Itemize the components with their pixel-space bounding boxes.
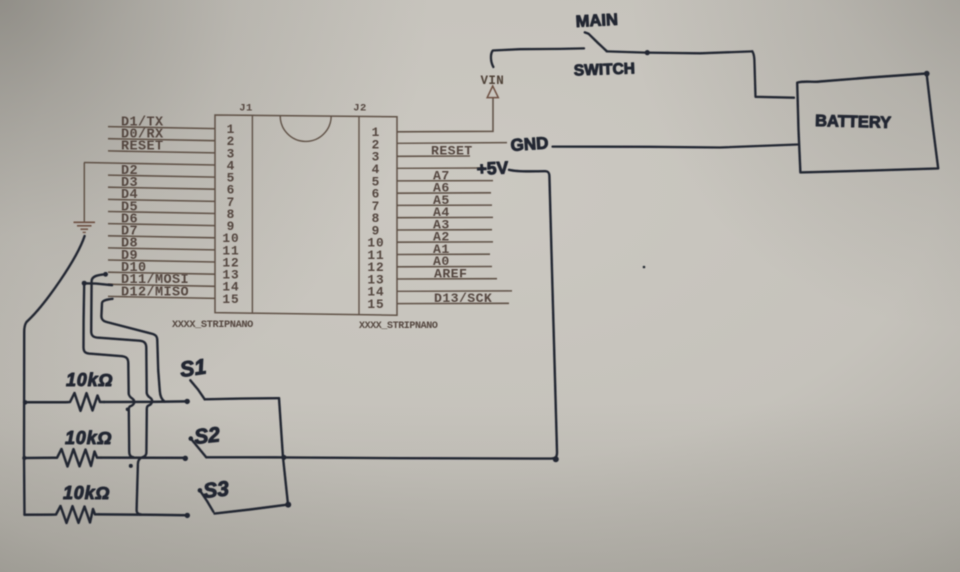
- svg-text:MAIN: MAIN: [575, 11, 618, 31]
- wire J2 pin 9 (A3): [397, 229, 492, 231]
- wire VIN to main switch: [491, 48, 584, 67]
- svg-text:RESET: RESET: [121, 140, 164, 155]
- wire J2 pin 6 (A6): [397, 192, 491, 194]
- tiny ink speck: [643, 266, 646, 269]
- wire J1 pin 3 (RESET): [108, 151, 215, 153]
- svg-text:10kΩ: 10kΩ: [63, 483, 110, 503]
- svg-text:XXXX_STRIPNANO: XXXX_STRIPNANO: [359, 321, 438, 332]
- S2 lever tip dot: [189, 436, 194, 441]
- junction dot at D10: [103, 272, 108, 277]
- +5V wire corner dot: [553, 456, 559, 462]
- wire J1 pin 8 (D5): [108, 212, 215, 214]
- svg-text:GND: GND: [510, 133, 549, 155]
- switch S3 lever: [200, 490, 214, 511]
- S3 lever tip dot: [198, 488, 203, 493]
- bus junction dot R2: [22, 456, 26, 460]
- wire GND drop from J1 pin 4: [83, 163, 85, 222]
- wire J1 pin 6 (D3): [108, 187, 215, 189]
- svg-text:J2: J2: [353, 103, 367, 115]
- svg-text:J1: J1: [239, 103, 253, 115]
- wire J2 pin 12 (A0): [397, 266, 492, 268]
- wire J1 pin 15 (D12/MISO): [108, 296, 215, 298]
- wire J1 pin 11 (D8): [108, 248, 215, 250]
- junction blob on switch wire: [645, 50, 650, 55]
- svg-text:15: 15: [367, 297, 384, 312]
- connector J1/J2 outline box: [215, 115, 397, 315]
- svg-text:SWITCH: SWITCH: [574, 60, 636, 79]
- main switch SW1 lever: [585, 32, 607, 51]
- right bus S1/S2/S3 vertical: [279, 398, 288, 504]
- wire J1 pin 12 (D9): [108, 260, 215, 262]
- wire J2 pin 4 (+5V): [397, 167, 484, 169]
- wire J2 pin 8 (A4): [397, 216, 493, 218]
- wire GND to battery: [553, 145, 798, 148]
- wire J1 pin 9 (D6): [108, 224, 215, 226]
- switch S2 lever: [191, 439, 206, 458]
- ground symbol: [74, 222, 96, 232]
- wire J1 pin 5 (D2): [108, 175, 215, 177]
- wire S3 to right bus bottom: [215, 505, 289, 514]
- wire R1 to S1: [104, 400, 187, 403]
- resistor R3 10k: [25, 506, 100, 523]
- wire J2 pin 10 (A2): [397, 241, 493, 243]
- svg-text:RESET: RESET: [431, 144, 473, 159]
- wire J1 pin 2 (D0/RX): [108, 139, 215, 141]
- bus junction dot R1: [23, 400, 28, 405]
- wire J2 pin 7 (A5): [397, 204, 492, 206]
- wire elbow down to battery: [752, 51, 794, 97]
- wire J1 pin 13 (D10): [108, 272, 215, 274]
- wire D11/MOSI to S2 column: [84, 283, 135, 457]
- wire J2 pin 2 (GND): [397, 142, 507, 145]
- battery box corner dot: [924, 71, 930, 77]
- svg-text:BATTERY: BATTERY: [815, 112, 892, 132]
- switch S1 lever: [190, 380, 204, 399]
- svg-text:+5V: +5V: [476, 157, 509, 179]
- svg-text:S2: S2: [193, 423, 221, 449]
- svg-text:VIN: VIN: [481, 74, 505, 88]
- wire R3 to S3: [99, 513, 187, 516]
- wire J1 pin 4 (GND): [84, 163, 215, 166]
- wire J2 pin 15 (D13/SCK): [397, 302, 509, 304]
- stray ink dot below R2 row: [129, 464, 133, 468]
- wire J2 pin 13 (AREF): [397, 278, 497, 280]
- wire J2 pin 1 to VIN: [397, 98, 493, 132]
- power symbol VIN triangle: [487, 86, 498, 98]
- IC notch semicircle: [280, 116, 331, 142]
- svg-text:15: 15: [222, 292, 239, 307]
- svg-text:10kΩ: 10kΩ: [66, 370, 113, 390]
- wire ground to left bus: [24, 236, 85, 402]
- wire R2 to S2: [101, 456, 186, 459]
- svg-text:D12/MISO: D12/MISO: [121, 285, 189, 300]
- wire D12/MISO to S1 column: [101, 299, 164, 402]
- svg-text:S1: S1: [178, 355, 207, 382]
- junction dot at D11/MOSI: [82, 281, 87, 286]
- J2 pin column divider: [358, 116, 360, 314]
- wire J1 pin 14 (D11/MOSI): [108, 284, 215, 286]
- wire main switch to elbow: [607, 51, 753, 53]
- svg-text:D13/SCK: D13/SCK: [434, 291, 492, 306]
- wire J1 pin 7 (D4): [108, 199, 215, 201]
- J1 pin column divider: [251, 115, 253, 313]
- svg-text:S3: S3: [202, 477, 230, 503]
- wire S1 to right bus: [205, 398, 279, 399]
- S2 left contact dot: [183, 456, 188, 461]
- junction dot +5V bus / S2: [281, 455, 286, 460]
- svg-text:10kΩ: 10kΩ: [65, 428, 112, 448]
- wire J2 pin 5 (A7): [397, 180, 493, 182]
- wire J1 pin 1 (D1/TX): [108, 127, 215, 129]
- wire +5V down to switches bus: [284, 170, 557, 459]
- wire J2 pin 11 (A1): [397, 253, 490, 255]
- wire S2 to right bus: [206, 456, 284, 459]
- wire D10 to S3 column: [91, 274, 152, 514]
- wire J2 pin 14: [397, 290, 512, 292]
- resistor R2 10k: [24, 449, 101, 467]
- wire J2 pin 3 (RESET): [397, 155, 470, 157]
- battery box BT1: [797, 74, 938, 173]
- wire J1 pin 10 (D7): [108, 236, 215, 238]
- resistor R1 10k: [24, 393, 104, 411]
- S3 left contact dot: [185, 513, 190, 518]
- S1 left contact dot: [185, 399, 190, 404]
- stray ink dot below R1 row: [126, 408, 130, 412]
- right bus bottom dot: [285, 502, 291, 508]
- left bus vertical: [23, 402, 26, 515]
- svg-text:AREF: AREF: [434, 266, 467, 281]
- svg-text:XXXX_STRIPNANO: XXXX_STRIPNANO: [172, 319, 253, 331]
